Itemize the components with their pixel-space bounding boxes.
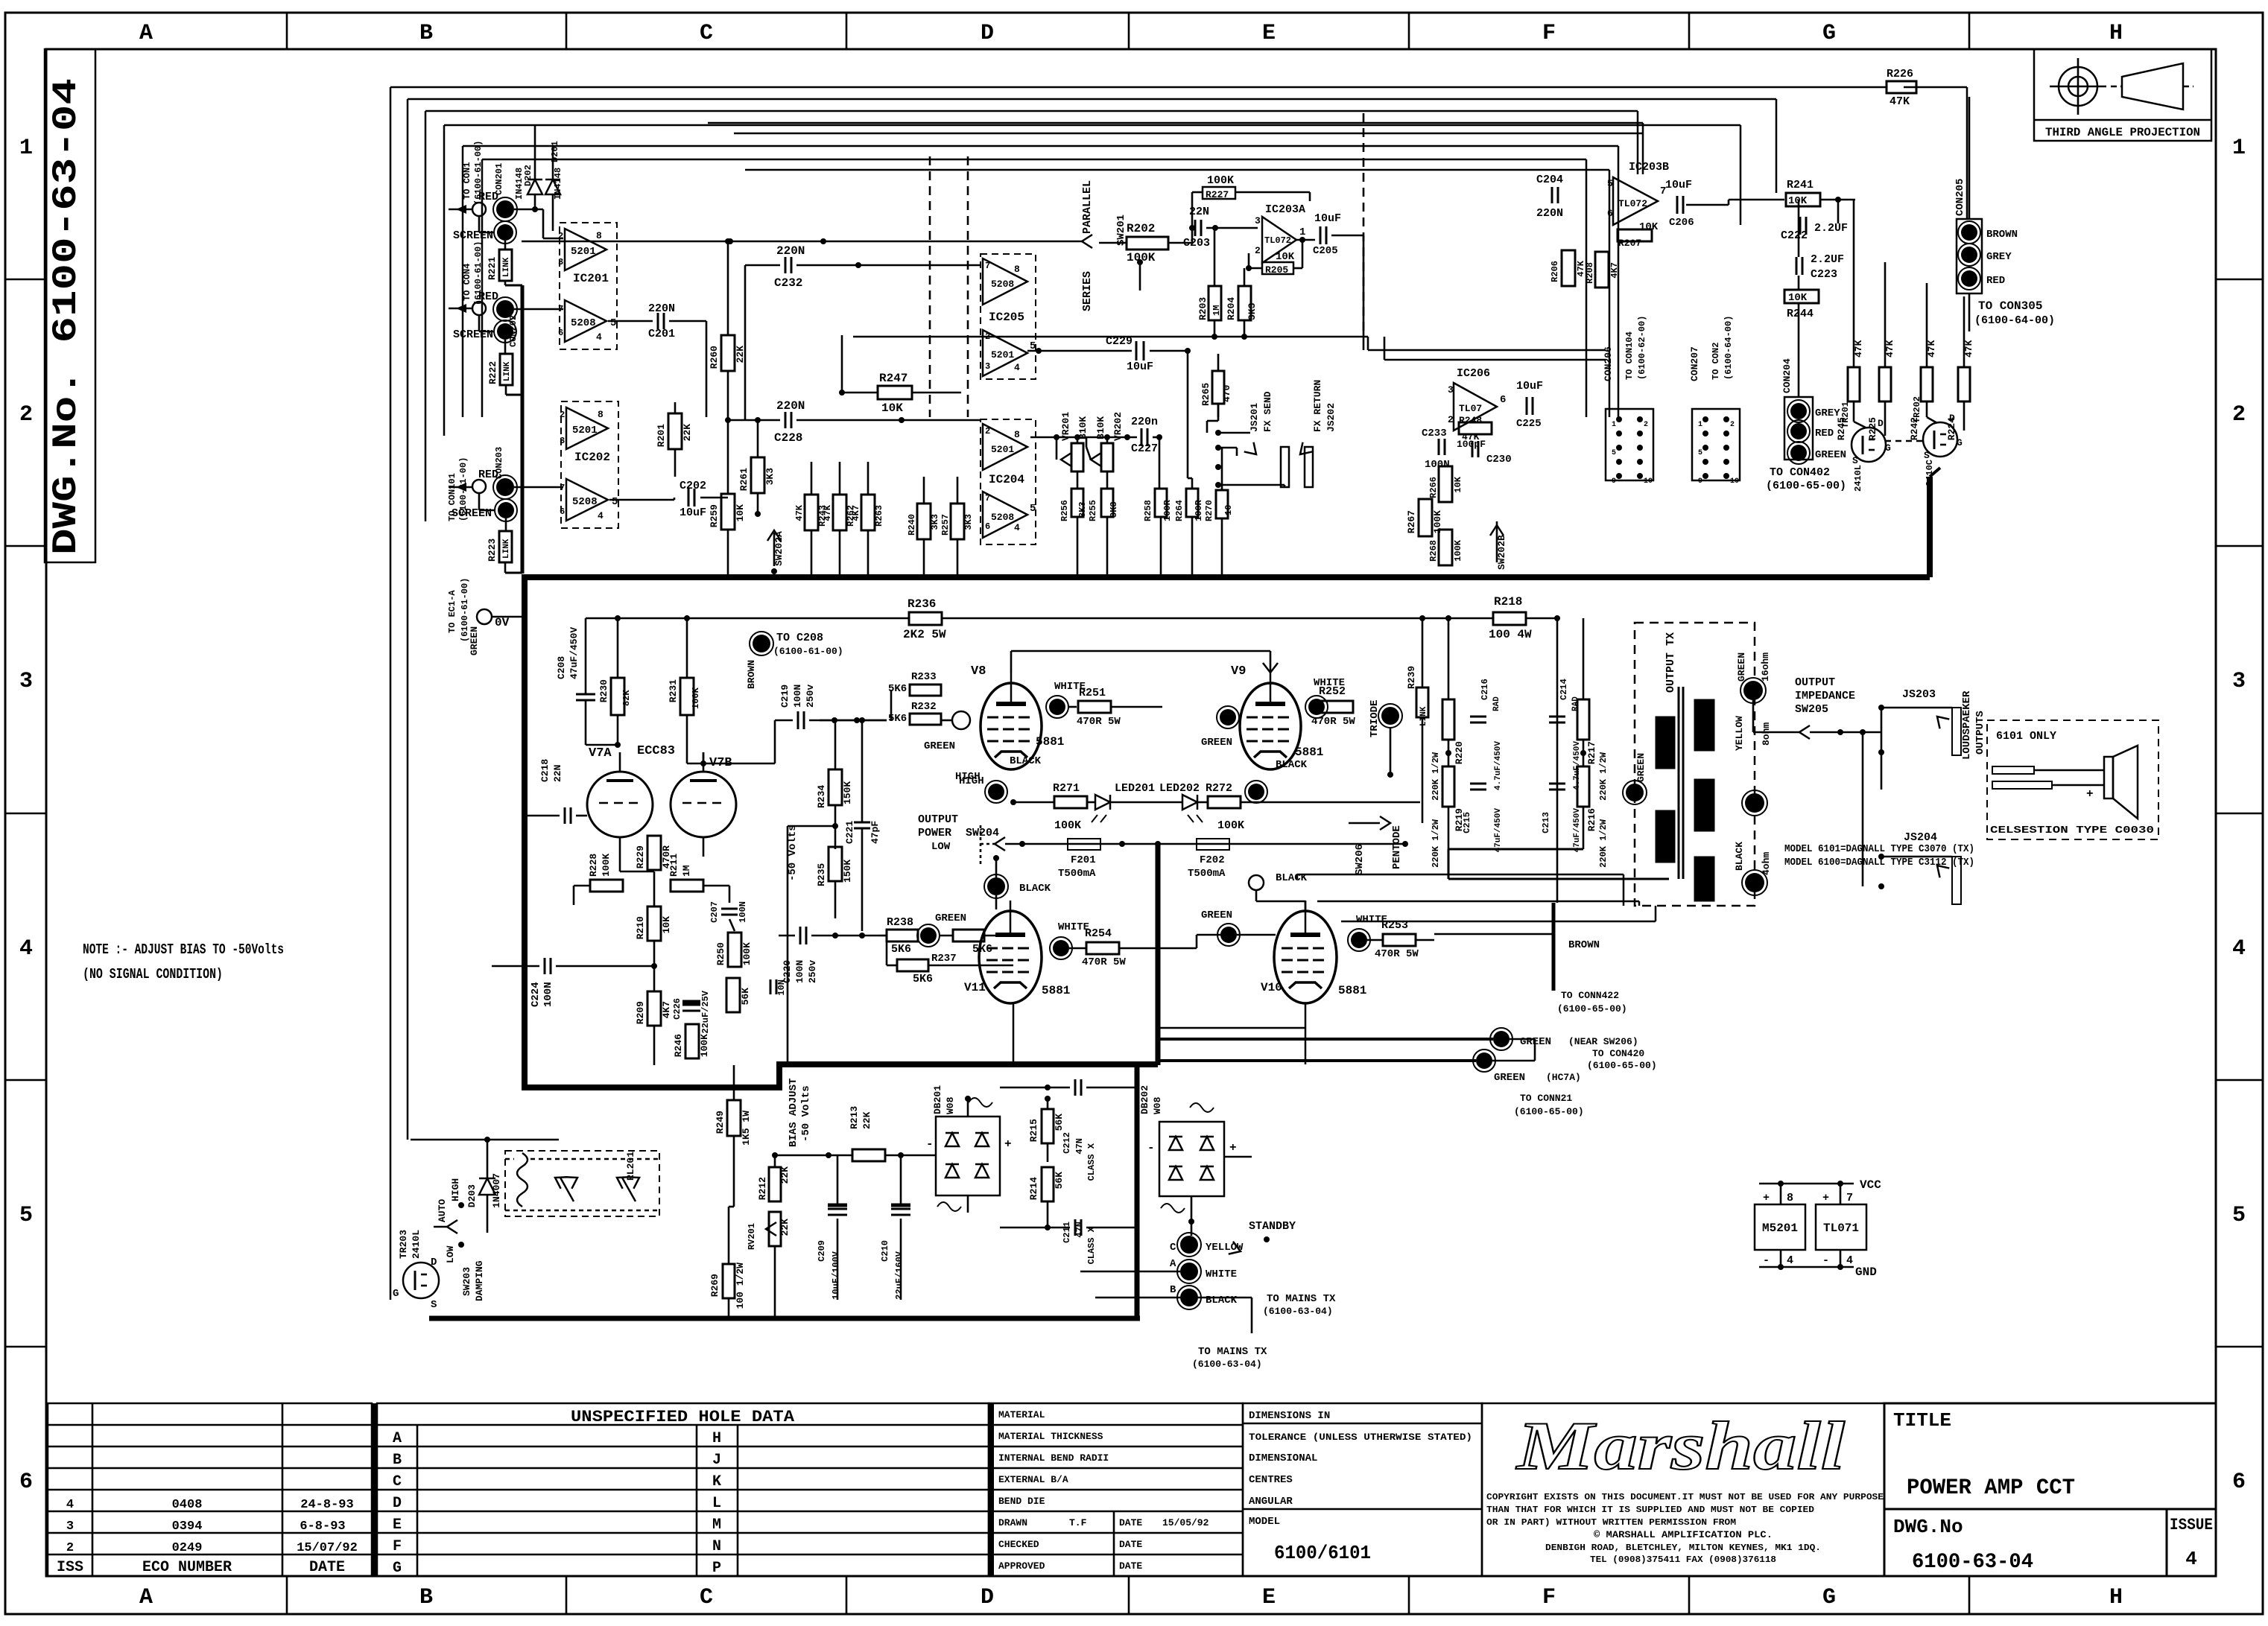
- svg-text:R244: R244: [1787, 308, 1814, 320]
- svg-text:22K: 22K: [861, 1111, 872, 1129]
- svg-text:PARALLEL: PARALLEL: [1081, 180, 1094, 234]
- svg-text:BROWN: BROWN: [746, 660, 757, 689]
- resistor R238 5K6: [887, 930, 918, 941]
- svg-text:R236: R236: [907, 597, 936, 611]
- resistor R243 47K: [805, 495, 818, 530]
- svg-text:B: B: [419, 1585, 433, 1610]
- svg-text:4: 4: [598, 510, 604, 521]
- svg-text:GREEN: GREEN: [469, 626, 480, 655]
- resistor R220 220K 1/2W: [1442, 699, 1454, 740]
- resistor R249 1K5 1W: [727, 1100, 741, 1136]
- svg-text:R209: R209: [635, 1001, 646, 1024]
- svg-text:4K7: 4K7: [851, 505, 861, 521]
- resistor R237 5K6: [897, 959, 928, 971]
- svg-text:B: B: [419, 21, 433, 46]
- wire LED row: [1013, 801, 1054, 804]
- svg-text:IC203B: IC203B: [1629, 161, 1669, 174]
- svg-text:D201: D201: [550, 141, 560, 162]
- svg-text:5208: 5208: [991, 279, 1014, 290]
- svg-text:F201: F201: [1071, 854, 1096, 866]
- wire tx feed 3: [1341, 921, 1656, 923]
- svg-text:POWER AMP CCT: POWER AMP CCT: [1907, 1476, 2075, 1501]
- svg-text:C207: C207: [709, 901, 720, 923]
- svg-text:R223: R223: [487, 539, 498, 562]
- svg-text:DATE: DATE: [309, 1559, 345, 1576]
- svg-text:BROWN: BROWN: [1568, 939, 1600, 951]
- svg-text:5: 5: [1612, 449, 1616, 457]
- resistor R216 220K 1/2W: [1577, 766, 1589, 807]
- svg-text:R237: R237: [931, 953, 957, 965]
- connector CON207: [1692, 409, 1740, 480]
- svg-text:6100-63-04: 6100-63-04: [1912, 1551, 2033, 1574]
- svg-text:FX RETURN: FX RETURN: [1312, 380, 1323, 432]
- svg-text:R248: R248: [1459, 415, 1482, 426]
- svg-text:MATERIAL: MATERIAL: [998, 1409, 1045, 1420]
- svg-text:7: 7: [985, 261, 990, 271]
- transistor TR203: [403, 1263, 439, 1298]
- svg-text:9: 9: [1612, 477, 1616, 486]
- wire C206 to R241: [1686, 204, 1729, 206]
- resistor R247 10K: [878, 386, 912, 399]
- svg-text:100 1/2W: 100 1/2W: [735, 1263, 746, 1309]
- svg-text:YELLOW: YELLOW: [1206, 1242, 1244, 1254]
- svg-text:(6100-64-00): (6100-64-00): [1974, 314, 2055, 327]
- svg-text:V11: V11: [964, 981, 986, 994]
- wire tx feed 2: [1317, 901, 1639, 903]
- svg-text:R203: R203: [1197, 297, 1209, 320]
- wire bus line 5: [463, 145, 1618, 147]
- resistor R272 100K: [1208, 796, 1241, 808]
- svg-text:56K: 56K: [1054, 1172, 1065, 1190]
- svg-text:IC206: IC206: [1457, 367, 1490, 380]
- svg-text:M5201: M5201: [1762, 1222, 1798, 1235]
- CON205 red pin: [1961, 270, 1977, 287]
- svg-text:C201: C201: [648, 328, 675, 340]
- resistor R218 100 4W: [1493, 612, 1526, 625]
- resistor 56K bias: [726, 978, 740, 1012]
- cap C221 47pF: [854, 822, 870, 824]
- svg-text:WHITE: WHITE: [1206, 1268, 1237, 1280]
- op-amp IC203B: [1613, 177, 1658, 225]
- svg-text:SCREEN: SCREEN: [452, 507, 492, 520]
- black node V8: [988, 784, 1004, 800]
- CON204 grey pin: [1790, 403, 1807, 419]
- svg-text:2: 2: [2232, 402, 2246, 428]
- black node tx 4ohm: [1745, 873, 1764, 892]
- svg-text:4: 4: [1787, 1254, 1793, 1267]
- cap C229 10uF: [1135, 341, 1138, 361]
- svg-text:B10K: B10K: [1095, 416, 1106, 439]
- svg-text:C225: C225: [1516, 418, 1542, 430]
- svg-text:100N: 100N: [1425, 459, 1450, 471]
- svg-text:C214: C214: [1559, 679, 1569, 700]
- 6101 only dashed box: [1987, 720, 2158, 839]
- svg-text:R229: R229: [635, 845, 646, 868]
- cap C233 100N: [1438, 439, 1440, 455]
- svg-text:4: 4: [66, 1498, 74, 1512]
- cap C218 22N: [564, 807, 566, 824]
- svg-text:R216: R216: [1586, 808, 1597, 831]
- svg-text:TL072: TL072: [1618, 198, 1647, 209]
- svg-text:COPYRIGHT EXISTS ON THIS DOCUM: COPYRIGHT EXISTS ON THIS DOCUMENT.IT MUS…: [1486, 1492, 1884, 1502]
- svg-text:RED: RED: [1815, 428, 1834, 439]
- svg-text:R226: R226: [1887, 68, 1913, 80]
- svg-text:6101 ONLY: 6101 ONLY: [1996, 730, 2056, 743]
- svg-text:5201: 5201: [991, 444, 1014, 455]
- resistor R211 1M: [671, 880, 703, 892]
- CON204 red pin: [1790, 423, 1807, 439]
- relay contact 2: [622, 1178, 636, 1201]
- svg-text:470R 5W: 470R 5W: [1077, 716, 1121, 728]
- svg-text:470: 470: [1221, 384, 1232, 402]
- op-amp IC204 dashed box: [981, 419, 1036, 544]
- svg-text:5: 5: [1607, 178, 1613, 189]
- wire bias column: [774, 1155, 776, 1167]
- yellow node standby: [1180, 1236, 1198, 1254]
- svg-text:100K: 100K: [1127, 251, 1156, 264]
- thick bus vertical left: [522, 574, 528, 1090]
- svg-text:THIRD ANGLE PROJECTION: THIRD ANGLE PROJECTION: [2045, 126, 2200, 139]
- resistor R207 10K: [1618, 229, 1652, 241]
- svg-text:DB201: DB201: [932, 1085, 943, 1114]
- svg-text:R212: R212: [757, 1177, 768, 1200]
- svg-text:100K: 100K: [691, 687, 701, 709]
- diode D203 1N4007: [479, 1178, 495, 1195]
- svg-text:4: 4: [1846, 1254, 1853, 1267]
- svg-text:56K: 56K: [740, 988, 751, 1006]
- svg-text:6: 6: [1500, 394, 1506, 406]
- resistor R256 3K3: [1071, 489, 1083, 517]
- svg-text:B: B: [393, 1452, 402, 1469]
- resistor R240 3K3: [917, 504, 931, 539]
- diode D201 1N4148: [545, 180, 560, 194]
- svg-text:NOTE :- ADJUST BIAS TO -50Volt: NOTE :- ADJUST BIAS TO -50Volts: [83, 941, 284, 958]
- svg-text:220K 1/2W: 220K 1/2W: [1431, 752, 1441, 801]
- svg-text:LED202: LED202: [1159, 782, 1200, 795]
- svg-text:6: 6: [1607, 208, 1613, 219]
- dashed gang line SW202 left: [929, 156, 931, 417]
- svg-text:(6100-61-00): (6100-61-00): [460, 578, 470, 642]
- tube V11: [979, 911, 1042, 1003]
- svg-text:R261: R261: [738, 468, 750, 491]
- speaker terminals: [1992, 766, 2034, 774]
- svg-text:CELSESTION TYPE C0030: CELSESTION TYPE C0030: [1990, 825, 2154, 836]
- svg-text:+: +: [1822, 1192, 1829, 1204]
- svg-text:R272: R272: [1206, 782, 1232, 795]
- svg-text:100K: 100K: [1217, 819, 1244, 832]
- svg-text:G: G: [1822, 21, 1836, 46]
- svg-text:(HC7A): (HC7A): [1546, 1072, 1581, 1083]
- resistor R264 100R: [1186, 489, 1198, 517]
- svg-text:OUTPUT: OUTPUT: [1795, 676, 1835, 689]
- svg-text:3: 3: [1448, 384, 1454, 396]
- svg-text:LINK: LINK: [502, 539, 511, 559]
- svg-text:CON205: CON205: [1954, 179, 1966, 216]
- wire ground rail mid: [853, 336, 1368, 338]
- thick bus standby vertical: [1135, 1061, 1140, 1318]
- speaker symbol: [2104, 757, 2113, 798]
- svg-text:10: 10: [1644, 477, 1653, 486]
- DWG.No. vertical box: [45, 49, 95, 562]
- svg-text:250v: 250v: [807, 960, 818, 983]
- svg-text:R258: R258: [1143, 500, 1153, 521]
- resistor R214 56K: [1042, 1167, 1054, 1201]
- svg-text:100K: 100K: [1207, 174, 1234, 187]
- op-amp IC204 lower half: [983, 492, 1027, 538]
- thick wire center vertical: [1156, 844, 1161, 1065]
- svg-text:R255: R255: [1088, 500, 1098, 521]
- svg-text:2: 2: [1255, 245, 1261, 256]
- cap C212 47N CLASS X: [1074, 1079, 1077, 1096]
- svg-text:100N: 100N: [794, 960, 805, 983]
- resistor R217 220K 1/2W: [1577, 699, 1589, 740]
- svg-text:DAMPING: DAMPING: [474, 1260, 485, 1301]
- svg-text:5881: 5881: [1295, 746, 1323, 759]
- svg-text:A: A: [1170, 1258, 1176, 1270]
- white node V11: [1053, 940, 1069, 956]
- cap C232 220N: [785, 257, 787, 273]
- svg-text:LED201: LED201: [1115, 782, 1155, 795]
- svg-text:G: G: [1822, 1585, 1836, 1610]
- resistor R203 1M: [1209, 286, 1221, 320]
- transformer secondary winding 1: [1694, 699, 1714, 751]
- svg-text:VR202: VR202: [1112, 412, 1124, 441]
- svg-text:WHITE: WHITE: [1058, 921, 1089, 933]
- svg-text:R269: R269: [709, 1274, 720, 1297]
- op-amp IC205 lower half: [983, 330, 1027, 376]
- resistor R254 470R 5W: [1086, 942, 1119, 954]
- svg-text:GREEN: GREEN: [1201, 909, 1232, 921]
- svg-text:D: D: [393, 1495, 402, 1512]
- svg-text:10K: 10K: [1453, 476, 1463, 492]
- svg-text:AUTO: AUTO: [437, 1199, 448, 1222]
- svg-text:SCREEN: SCREEN: [453, 328, 493, 341]
- svg-text:1: 1: [1612, 421, 1616, 429]
- svg-text:SERIES: SERIES: [1081, 271, 1094, 311]
- svg-text:DB202: DB202: [1139, 1085, 1150, 1114]
- white node V8: [1049, 699, 1065, 715]
- transformer secondary winding 2: [1694, 779, 1714, 831]
- svg-text:B: B: [1170, 1284, 1176, 1296]
- to C208 brown node: [753, 635, 770, 652]
- svg-text:150K: 150K: [842, 860, 853, 883]
- wire R265 to jack: [1217, 404, 1220, 421]
- wire horizontal rail to SW201: [522, 241, 1082, 243]
- svg-text:TO C208: TO C208: [776, 632, 823, 644]
- svg-text:C218: C218: [539, 759, 551, 782]
- svg-text:DATE: DATE: [1119, 1517, 1142, 1528]
- svg-text:F: F: [1542, 1585, 1556, 1610]
- fuse F202 T500mA: [1197, 839, 1229, 850]
- svg-text:R230: R230: [598, 679, 609, 702]
- green node tx primary: [1626, 784, 1644, 801]
- svg-text:(6100-63-04): (6100-63-04): [1192, 1359, 1262, 1370]
- svg-text:E: E: [1262, 1585, 1276, 1610]
- title box: [1884, 1403, 2216, 1509]
- wires 220k cluster: [1448, 618, 1450, 699]
- svg-text:JS204: JS204: [1904, 831, 1937, 844]
- resistor R266 10K: [1439, 466, 1452, 502]
- svg-text:OUTPUT TX: OUTPUT TX: [1664, 632, 1677, 693]
- svg-text:6: 6: [558, 328, 563, 338]
- switch SW202A: [773, 533, 776, 566]
- svg-text:F202: F202: [1200, 854, 1225, 866]
- svg-text:TO CON305: TO CON305: [1978, 299, 2042, 313]
- svg-text:4K7: 4K7: [661, 1001, 672, 1018]
- dwg no box: [1884, 1509, 2167, 1576]
- svg-text:LINK: LINK: [502, 257, 511, 277]
- wire bus loop 3: [425, 110, 1638, 112]
- svg-text:N: N: [712, 1538, 721, 1555]
- open circle input 1: [472, 203, 486, 216]
- svg-text:ISS: ISS: [57, 1559, 83, 1576]
- cap C216 4.7uF/450V RAD: [1470, 716, 1486, 718]
- svg-text:(NO SIGNAL CONDITION): (NO SIGNAL CONDITION): [83, 966, 223, 982]
- svg-text:DATE: DATE: [1119, 1539, 1142, 1550]
- op-amp IC202 triangle B 5208: [566, 479, 608, 521]
- resistor R269 100 1/2W: [723, 1264, 735, 1298]
- svg-text:TITLE: TITLE: [1893, 1409, 1951, 1432]
- svg-text:+: +: [1763, 1192, 1770, 1204]
- resistor R223 LINK: [499, 531, 512, 562]
- svg-text:8ohm: 8ohm: [1761, 723, 1772, 746]
- svg-text:(6100-65-00): (6100-65-00): [1587, 1060, 1657, 1071]
- svg-text:TO MAINS TX: TO MAINS TX: [1198, 1346, 1267, 1358]
- svg-text:22uF/160V: 22uF/160V: [894, 1251, 905, 1300]
- cap C225 10uF: [1526, 397, 1528, 415]
- svg-text:TO CONN21: TO CONN21: [1520, 1093, 1572, 1104]
- svg-text:5208: 5208: [572, 496, 598, 508]
- svg-text:PENTODE: PENTODE: [1391, 825, 1403, 869]
- connector CON202: [496, 300, 514, 318]
- wire IC201B out to C201: [608, 320, 653, 323]
- svg-text:4: 4: [596, 331, 602, 343]
- relay RL201 coil: [517, 1153, 528, 1207]
- svg-text:4.7uF/450V: 4.7uF/450V: [1494, 741, 1503, 790]
- cap C203 22N: [1194, 220, 1197, 236]
- cap C228 220N: [785, 412, 787, 428]
- svg-text:R239: R239: [1406, 666, 1417, 689]
- bridge rectifier DB202: [1159, 1122, 1224, 1196]
- svg-text:HIGH: HIGH: [450, 1178, 461, 1201]
- svg-text:10: 10: [1223, 505, 1234, 515]
- op-amp IC201 triangle B 5208: [565, 300, 606, 342]
- svg-text:F: F: [393, 1538, 402, 1555]
- svg-text:R228: R228: [588, 854, 599, 877]
- svg-text:R260: R260: [709, 346, 720, 369]
- svg-text:OR IN PART) WITHOUT WRITTEN PE: OR IN PART) WITHOUT WRITTEN PERMISSION F…: [1486, 1517, 1736, 1528]
- cap C205 10uF: [1320, 226, 1322, 244]
- svg-text:R241: R241: [1787, 179, 1814, 191]
- svg-text:H: H: [2109, 21, 2123, 46]
- svg-text:LINK: LINK: [1419, 706, 1428, 726]
- svg-text:2: 2: [19, 402, 33, 428]
- resistor R212 22K: [769, 1167, 781, 1201]
- svg-text:C: C: [393, 1473, 402, 1490]
- green node hc7a: [1476, 1052, 1492, 1069]
- svg-text:220n: 220n: [1131, 416, 1158, 428]
- svg-text:GREEN: GREEN: [1736, 652, 1747, 682]
- cap C227 220n: [1141, 428, 1143, 446]
- svg-text:10K: 10K: [661, 916, 672, 934]
- svg-text:22N: 22N: [552, 765, 563, 782]
- open circle input 3: [472, 480, 486, 493]
- wire V11 cathode to bus: [1013, 1003, 1015, 1064]
- svg-text:8: 8: [1787, 1192, 1793, 1204]
- svg-text:6: 6: [985, 521, 990, 532]
- relay contact 1: [560, 1178, 574, 1201]
- svg-text:2: 2: [560, 410, 565, 420]
- svg-text:6: 6: [19, 1470, 33, 1495]
- svg-text:D202: D202: [523, 165, 533, 186]
- svg-text:YELLOW: YELLOW: [1734, 716, 1745, 751]
- svg-text:DENBIGH ROAD, BLETCHLEY, MILTO: DENBIGH ROAD, BLETCHLEY, MILTON KEYNES, …: [1545, 1543, 1821, 1553]
- svg-text:TO CON1: TO CON1: [462, 162, 472, 200]
- svg-text:C215: C215: [1462, 812, 1472, 833]
- black circle V10: [1249, 875, 1264, 890]
- svg-text:C: C: [700, 21, 713, 46]
- svg-text:R215: R215: [1028, 1119, 1039, 1142]
- svg-text:7: 7: [1846, 1192, 1853, 1204]
- svg-text:R234: R234: [816, 785, 827, 808]
- svg-text:R271: R271: [1053, 782, 1080, 795]
- svg-text:2: 2: [558, 231, 563, 241]
- svg-text:R232: R232: [911, 701, 937, 713]
- svg-text:DIMENSIONAL: DIMENSIONAL: [1249, 1452, 1317, 1464]
- svg-text:MODEL 6101=DAGNALL TYPE C3070: MODEL 6101=DAGNALL TYPE C3070 (TX): [1784, 843, 1974, 855]
- svg-text:R218: R218: [1494, 595, 1522, 609]
- IC M5201 supply box: [1755, 1204, 1805, 1250]
- resistor R263 4K7: [861, 495, 875, 530]
- op-amp IC205 dashed box: [981, 254, 1036, 379]
- svg-text:2.2UF: 2.2UF: [1814, 222, 1848, 235]
- svg-text:C226: C226: [672, 998, 682, 1020]
- third angle projection box: [2034, 49, 2211, 141]
- tube V7B: [671, 772, 736, 837]
- svg-text:5: 5: [1030, 503, 1036, 515]
- resistor R260 22K: [721, 335, 735, 371]
- wire relay dashed links: [505, 1158, 514, 1160]
- resistor R219 220K 1/2W: [1442, 766, 1454, 807]
- wire RED3 to IC202B: [514, 486, 563, 489]
- svg-text:LOW: LOW: [445, 1245, 456, 1263]
- svg-text:3: 3: [2232, 669, 2246, 694]
- green node V11: [920, 927, 937, 944]
- svg-text:TRIODE: TRIODE: [1369, 700, 1381, 737]
- svg-text:V8: V8: [971, 664, 986, 679]
- svg-text:470R 5W: 470R 5W: [1375, 948, 1419, 960]
- diode D202 1N4148: [528, 180, 542, 194]
- svg-text:4: 4: [1014, 362, 1020, 373]
- resistor R259 10K: [721, 494, 735, 530]
- svg-text:A: A: [393, 1430, 402, 1447]
- svg-text:R263: R263: [874, 505, 884, 527]
- svg-text:1M: 1M: [1211, 305, 1222, 316]
- svg-text:SW202A: SW202A: [773, 531, 785, 566]
- svg-text:4: 4: [2185, 1548, 2197, 1570]
- svg-text:2: 2: [66, 1541, 74, 1555]
- svg-text:Marshall: Marshall: [1515, 1408, 1845, 1484]
- svg-text:10K: 10K: [1639, 221, 1659, 233]
- bridge rectifier DB201: [936, 1117, 1000, 1195]
- svg-text:GREEN: GREEN: [924, 740, 955, 752]
- svg-text:SW205: SW205: [1795, 703, 1828, 716]
- IC TL071 supply box: [1816, 1204, 1866, 1250]
- wire bus loop 4: [444, 124, 1740, 127]
- svg-text:C232: C232: [774, 276, 802, 290]
- transformer secondary winding 3: [1694, 857, 1714, 901]
- connector CON201 screen: [497, 224, 513, 241]
